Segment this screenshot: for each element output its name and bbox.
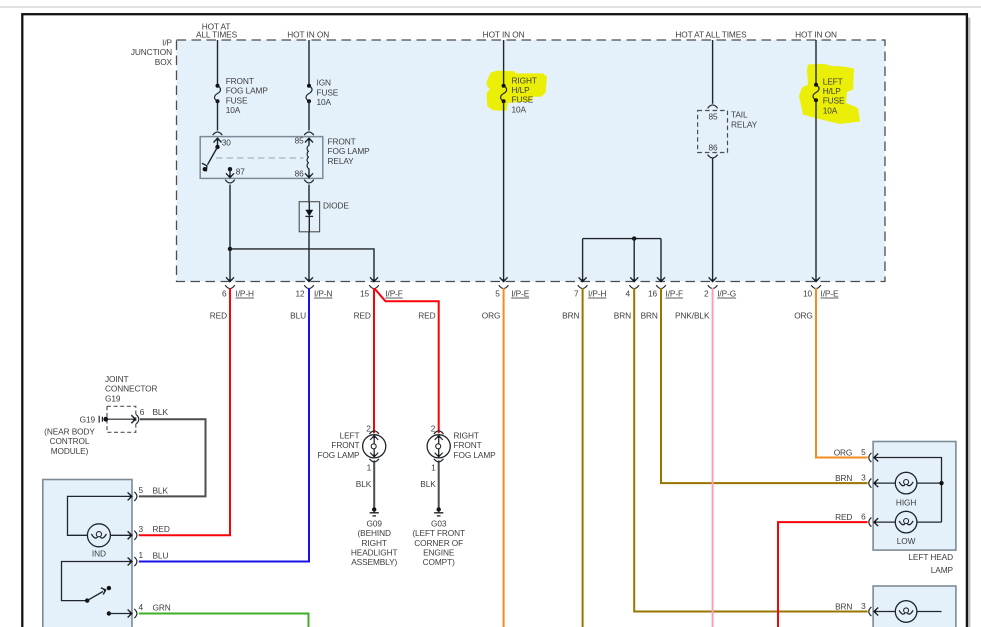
top gray rule: [0, 6, 981, 8]
svg-text:I/P: I/P: [162, 38, 172, 48]
lamp headlamp2 filament: [899, 610, 905, 614]
svg-text:CONNECTOR: CONNECTOR: [105, 384, 158, 394]
relay K1 coil: [307, 146, 309, 169]
svg-text:FRONT: FRONT: [226, 76, 254, 86]
switch S1 lower contact: [107, 611, 111, 615]
wire BRN pin16 to left head lamp pin3: [661, 288, 868, 483]
wire BRN pin7 down: [582, 288, 584, 627]
svg-text:GRN: GRN: [153, 602, 171, 612]
svg-text:RIGHT: RIGHT: [512, 75, 537, 85]
relay K1 connector arc top pin30: [213, 132, 223, 135]
wire feed 1 (HOT AT ALL TIMES to fog lamp fuse): [217, 40, 219, 86]
connector arc pin 6: [136, 415, 139, 424]
svg-text:85: 85: [708, 111, 718, 121]
svg-text:JUNCTION: JUNCTION: [131, 47, 172, 57]
headlamp connector arcs pins 5/3/6: [869, 453, 872, 527]
svg-text:HOT IN ON: HOT IN ON: [483, 30, 525, 40]
svg-text:RED: RED: [835, 512, 852, 522]
lamp E2 circle: [427, 435, 450, 458]
relay K1 switch arm: [208, 147, 218, 165]
wire ORG pin10 to left head lamp pin5: [816, 288, 868, 458]
svg-text:FRONT: FRONT: [331, 440, 359, 450]
svg-text:RELAY: RELAY: [731, 119, 758, 129]
lamp LOW circle: [895, 511, 917, 533]
svg-text:FOG LAMP: FOG LAMP: [454, 450, 497, 460]
svg-text:I/P-E: I/P-E: [511, 289, 530, 299]
pin 6 arrow + arc: [226, 277, 234, 281]
relay K1 pin 87 stub: [228, 167, 232, 171]
pin 15 arrow + arc: [370, 277, 378, 281]
svg-text:BRN: BRN: [641, 311, 658, 321]
lamp E1 LEFT FRONT FOG LAMP arc top: [369, 431, 379, 434]
wire GRN module pin4 down: [139, 614, 309, 627]
svg-text:RELAY: RELAY: [328, 156, 355, 166]
svg-text:2: 2: [431, 423, 436, 433]
svg-text:(NEAR BODY: (NEAR BODY: [44, 427, 95, 437]
svg-text:6: 6: [861, 512, 866, 522]
svg-text:LAMP: LAMP: [931, 565, 954, 575]
wire headlamp pin6 internal: [874, 521, 895, 523]
wire RED pin6 to module pin3: [139, 288, 230, 535]
I/P junction box: [177, 40, 886, 282]
svg-text:2: 2: [366, 423, 371, 433]
switch S1 arm: [87, 592, 103, 601]
relay K1 pin 85 stub + arrow: [308, 139, 310, 146]
wire PNK/BLK pin2 down: [712, 288, 714, 627]
wire BLK right fog lamp to G03: [438, 461, 440, 508]
relay K1 connector arc bottom pin87: [225, 180, 235, 183]
lamp E2 RIGHT FRONT FOG LAMP arc top: [434, 431, 444, 434]
wire HIGH to junction: [917, 482, 942, 484]
svg-text:6: 6: [222, 289, 227, 299]
pin 7 arrow + arc: [579, 277, 587, 281]
svg-text:I/P-H: I/P-H: [236, 289, 255, 299]
ground G03 symbol: [437, 507, 441, 511]
svg-text:RED: RED: [210, 311, 227, 321]
lamp IND circle: [87, 524, 110, 547]
lamp assembly LEFT HEAD LAMP box: [873, 442, 956, 551]
svg-text:3: 3: [139, 524, 144, 534]
svg-text:IGN: IGN: [317, 78, 332, 88]
svg-text:FUSE: FUSE: [512, 95, 534, 105]
svg-text:H/LP: H/LP: [512, 85, 531, 95]
svg-text:4: 4: [139, 602, 144, 612]
wire headlamp2 to right: [917, 611, 942, 613]
fuse F2 IGN 10A: [306, 86, 312, 102]
svg-text:FOG LAMP: FOG LAMP: [317, 450, 360, 460]
wire fuse3 to pin 5: [503, 101, 505, 281]
wire diode to pin 12: [308, 232, 310, 281]
lamp E1 circle: [363, 435, 386, 458]
svg-text:COMPT): COMPT): [423, 557, 455, 567]
svg-text:I/P-F: I/P-F: [666, 289, 684, 299]
wire module pin5 internal: [68, 496, 132, 535]
wire fuse1 to relay: [217, 101, 219, 130]
svg-text:5: 5: [495, 289, 500, 299]
wire jumper to pin 4: [633, 239, 635, 281]
joint connector G19 dashed box: [107, 406, 136, 432]
diode D1 box: [299, 202, 319, 232]
fuse F1 FRONT FOG LAMP 10A: [215, 86, 221, 102]
lamp IND filament: [91, 534, 97, 538]
svg-text:RIGHT: RIGHT: [454, 431, 479, 441]
frame shadow: [968, 18, 971, 627]
svg-text:RED: RED: [418, 311, 435, 321]
wire headlamp pin5 internal: [874, 458, 941, 523]
switch S1 upper contact: [107, 586, 111, 590]
svg-text:5: 5: [139, 485, 144, 495]
relay K1 pin 86 arrow down: [305, 173, 313, 177]
wire fuse4 to pin 10: [815, 100, 817, 281]
wire pin87 down to junction: [229, 185, 231, 249]
wire BRN pin4 to right head lamp: [634, 288, 867, 612]
switch S1 pivot: [85, 598, 89, 602]
wire RED left head lamp pin6 down: [778, 522, 868, 627]
wire LOW to vertical: [917, 521, 942, 523]
svg-text:86: 86: [708, 142, 718, 152]
tail relay K2 box: [698, 111, 728, 153]
wire headlamp pin3 internal: [874, 482, 895, 484]
svg-text:RIGHT: RIGHT: [362, 538, 387, 548]
svg-text:10A: 10A: [823, 105, 838, 115]
svg-text:1: 1: [367, 463, 372, 473]
svg-text:ENGINE: ENGINE: [423, 548, 455, 558]
node G19 dot: [103, 417, 108, 422]
highlight left H/LP fuse: [799, 64, 860, 124]
wire G19 arrow to pin 6: [106, 418, 135, 420]
svg-text:1: 1: [431, 463, 436, 473]
svg-text:MODULE): MODULE): [51, 446, 89, 456]
relay K1 FRONT FOG LAMP RELAY box: [200, 137, 323, 179]
svg-text:BLU: BLU: [290, 311, 306, 321]
tail relay connector arc bottom: [708, 155, 718, 158]
svg-text:G03: G03: [431, 518, 447, 528]
svg-text:30: 30: [222, 137, 232, 147]
tail relay K2 connector arc top: [708, 105, 718, 108]
svg-text:ORG: ORG: [834, 447, 853, 457]
svg-text:BRN: BRN: [614, 311, 631, 321]
svg-text:87: 87: [236, 167, 246, 177]
svg-text:LEFT: LEFT: [823, 76, 843, 86]
wire headlamp2 pin3 internal: [874, 611, 895, 613]
node jumper dot: [632, 236, 636, 240]
lamp HIGH filament: [899, 482, 905, 486]
svg-text:BRN: BRN: [835, 601, 852, 611]
svg-text:G19: G19: [80, 414, 96, 424]
wire RED branch to right fog lamp: [375, 289, 439, 434]
svg-text:FUSE: FUSE: [226, 95, 248, 105]
svg-text:IND: IND: [92, 549, 106, 559]
pin 4 arrow + arc: [630, 277, 638, 281]
svg-text:BLK: BLK: [420, 479, 436, 489]
svg-text:BRN: BRN: [562, 311, 579, 321]
svg-text:HOT IN ON: HOT IN ON: [795, 30, 837, 40]
wire feed 5 (HOT IN ON to left H/LP fuse): [815, 40, 817, 85]
module M1 box (near body control module): [43, 480, 132, 627]
module connector arcs pins 5/3/1/4: [134, 492, 137, 618]
headlamp2 connector arc pin3: [869, 607, 872, 616]
node junction dot 87 branch: [228, 247, 232, 251]
svg-text:(BEHIND: (BEHIND: [357, 528, 391, 538]
lamp headlamp2 circle: [895, 601, 917, 623]
svg-text:FUSE: FUSE: [317, 87, 339, 97]
svg-text:LEFT: LEFT: [340, 431, 360, 441]
wire module pin1 internal: [62, 562, 132, 601]
G19 terminal ticks: [98, 416, 100, 423]
svg-text:7: 7: [574, 289, 579, 299]
svg-text:HEADLIGHT: HEADLIGHT: [351, 548, 398, 558]
wire jumper to pin 16: [660, 239, 662, 281]
wire branch to pin 15: [230, 249, 374, 281]
svg-text:FRONT: FRONT: [454, 440, 482, 450]
svg-text:CORNER OF: CORNER OF: [414, 538, 463, 548]
pin 5 arrow + arc: [500, 277, 508, 281]
svg-text:G19: G19: [105, 393, 121, 403]
svg-text:RED: RED: [354, 311, 371, 321]
wire jumper to pin 7: [582, 239, 584, 281]
wire pin86 down to diode: [308, 185, 310, 202]
svg-text:ASSEMBLY): ASSEMBLY): [351, 557, 397, 567]
svg-text:15: 15: [360, 289, 370, 299]
svg-text:16: 16: [648, 289, 658, 299]
relay K1 connector arc top pin85: [304, 132, 314, 135]
fuse F3 RIGHT H/LP 10A: [501, 86, 507, 102]
wire junction to pin 6: [229, 249, 231, 281]
lamp E2 filament: [438, 436, 440, 444]
lamp HIGH circle: [895, 472, 917, 494]
svg-text:ORG: ORG: [794, 311, 813, 321]
wire lower contact to pin4: [109, 613, 132, 615]
svg-text:10A: 10A: [512, 104, 527, 114]
svg-text:2: 2: [704, 289, 709, 299]
wire jumper pins 7/4/16: [583, 238, 661, 240]
pin 16 arrow + arc: [657, 277, 665, 281]
svg-text:DIODE: DIODE: [323, 200, 349, 210]
svg-text:G09: G09: [367, 518, 383, 528]
svg-text:4: 4: [625, 289, 630, 299]
svg-text:ORG: ORG: [482, 311, 501, 321]
svg-text:10: 10: [803, 289, 813, 299]
relay K1 mechanical dashed link: [216, 157, 303, 159]
svg-text:RED: RED: [153, 524, 170, 534]
svg-text:BLU: BLU: [153, 550, 169, 560]
ground G09 symbol: [372, 507, 376, 511]
wire BLK left fog lamp to G09: [373, 461, 375, 508]
diode D1 symbol: [308, 202, 310, 210]
svg-text:PNK/BLK: PNK/BLK: [675, 311, 710, 321]
svg-text:3: 3: [861, 601, 866, 611]
svg-text:5: 5: [861, 447, 866, 457]
fuse F4 LEFT H/LP 10A: [813, 85, 819, 101]
svg-text:I/P-F: I/P-F: [385, 289, 403, 299]
node headlamp junction dot: [939, 481, 943, 485]
svg-text:I/P-G: I/P-G: [717, 289, 736, 299]
svg-text:10A: 10A: [317, 97, 332, 107]
relay K1 pin 30 stub: [217, 139, 219, 147]
lamp E2 arc bottom: [434, 459, 444, 462]
wire BLU pin12 to module pin1: [139, 288, 309, 562]
svg-text:1: 1: [139, 550, 144, 560]
svg-text:6: 6: [140, 407, 145, 417]
svg-text:HOT AT ALL TIMES: HOT AT ALL TIMES: [675, 30, 747, 40]
svg-text:85: 85: [295, 136, 305, 146]
svg-text:10A: 10A: [226, 105, 241, 115]
svg-text:BLK: BLK: [153, 485, 169, 495]
pin 2 arrow + arc: [709, 277, 717, 281]
svg-text:I/P-H: I/P-H: [588, 289, 607, 299]
wire fuse2 to relay: [308, 101, 310, 130]
svg-text:CONTROL: CONTROL: [50, 436, 90, 446]
highlight right H/LP fuse: [487, 71, 548, 111]
svg-text:LEFT HEAD: LEFT HEAD: [908, 552, 953, 562]
wire RED pin15 to left fog lamp: [373, 288, 375, 433]
svg-text:H/LP: H/LP: [823, 86, 842, 96]
svg-text:FUSE: FUSE: [823, 96, 845, 106]
svg-text:FOG LAMP: FOG LAMP: [328, 146, 371, 156]
svg-text:3: 3: [861, 473, 866, 483]
lamp E1 arc bottom: [369, 459, 379, 462]
wire BLK G19 to module pin5: [139, 419, 206, 496]
svg-text:FRONT: FRONT: [328, 136, 356, 146]
wire feed 2 (HOT IN ON to IGN fuse): [308, 40, 310, 86]
wire feed 4 (HOT AT ALL TIMES to tail relay): [712, 40, 714, 104]
svg-text:I/P-N: I/P-N: [314, 289, 333, 299]
svg-text:86: 86: [295, 168, 305, 178]
wire IND to pin3: [110, 534, 131, 536]
lamp assembly RIGHT HEAD LAMP box (clipped): [873, 586, 956, 627]
lamp LOW filament: [899, 521, 905, 525]
wire ORG pin5 down: [503, 288, 505, 627]
svg-text:HOT IN ON: HOT IN ON: [287, 30, 329, 40]
svg-text:TAIL: TAIL: [731, 110, 748, 120]
svg-text:BRN: BRN: [835, 473, 852, 483]
relay K1 connector arc bottom pin86: [304, 180, 314, 183]
pin 12 arrow + arc: [305, 277, 313, 281]
svg-text:BLK: BLK: [153, 407, 169, 417]
svg-text:(LEFT FRONT: (LEFT FRONT: [412, 528, 465, 538]
lamp E1 filament: [373, 436, 375, 444]
svg-text:JOINT: JOINT: [105, 374, 128, 384]
svg-text:LOW: LOW: [897, 536, 916, 546]
wire feed 3 (HOT IN ON to right H/LP fuse): [503, 40, 505, 86]
wire tail relay to pin 2: [712, 158, 714, 282]
svg-text:BLK: BLK: [356, 479, 372, 489]
svg-text:ALL TIMES: ALL TIMES: [196, 30, 238, 40]
svg-text:FOG LAMP: FOG LAMP: [226, 86, 269, 96]
svg-text:I/P-E: I/P-E: [821, 289, 840, 299]
svg-text:BOX: BOX: [155, 57, 173, 67]
svg-text:HIGH: HIGH: [896, 497, 916, 507]
svg-text:12: 12: [295, 289, 305, 299]
pin 10 arrow + arc: [812, 277, 820, 281]
